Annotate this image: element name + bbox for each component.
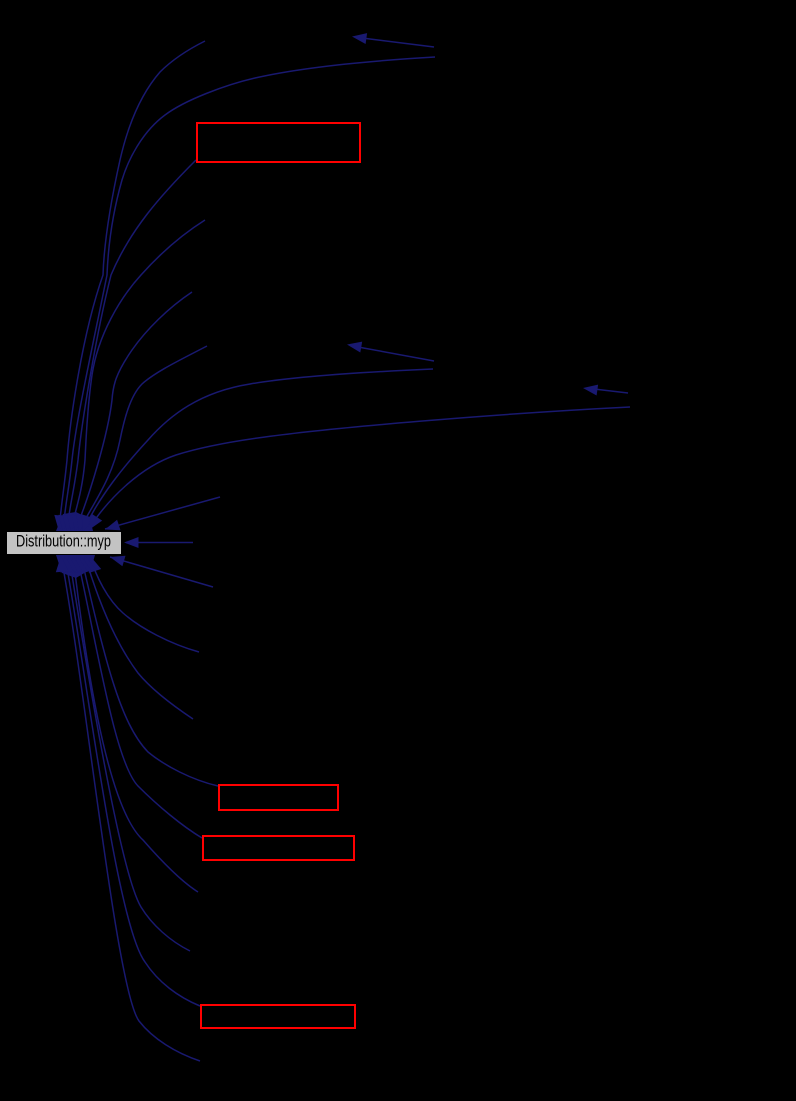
arrow cluster blob top bbox=[56, 512, 93, 531]
arrowhead L4 bbox=[78, 556, 91, 573]
wire U8 bbox=[105, 497, 220, 529]
svg-text:Distribution::myp: Distribution::myp bbox=[16, 533, 111, 551]
wire L1 bbox=[110, 557, 213, 587]
arrowhead U7 bbox=[88, 514, 102, 531]
node Distribution::myp central bbox=[7, 532, 122, 555]
arrowhead U5 bbox=[72, 515, 85, 532]
arrowhead U8 bbox=[105, 520, 121, 531]
wire L3 bbox=[85, 556, 193, 719]
wire U3 bbox=[67, 160, 196, 531]
wire U1 bbox=[59, 41, 205, 531]
node red box 3 bbox=[203, 836, 354, 860]
wire L9 bbox=[61, 556, 200, 1061]
wire L6 bbox=[73, 556, 198, 892]
arrowhead L3 bbox=[83, 556, 96, 573]
node red box 2 bbox=[219, 785, 338, 810]
arrowhead H1 bbox=[124, 537, 139, 548]
arrowhead L7 bbox=[65, 556, 78, 573]
wire U2 bbox=[63, 57, 435, 531]
arrowhead A7 bbox=[583, 385, 598, 396]
arrowhead L2 bbox=[89, 556, 101, 573]
arrowhead A6 bbox=[347, 342, 362, 353]
arrowhead U2 bbox=[58, 515, 71, 532]
arrow cluster blob bottom bbox=[56, 555, 95, 578]
wire U5 bbox=[75, 292, 192, 531]
node red box 4 bbox=[201, 1005, 355, 1028]
arrowhead U3 bbox=[62, 515, 75, 532]
wire U6 bbox=[83, 369, 433, 531]
arrowhead U1 bbox=[54, 515, 67, 532]
arrowhead L8 bbox=[61, 556, 74, 573]
arrowhead A2 bbox=[352, 33, 367, 44]
arrowhead L9 bbox=[56, 556, 69, 573]
wire A7 bbox=[594, 389, 628, 393]
wire U4 bbox=[71, 220, 205, 531]
wire U7 bbox=[88, 407, 630, 530]
wire L5 bbox=[77, 556, 202, 838]
arrowhead U4 bbox=[67, 515, 80, 532]
wire L7 bbox=[69, 556, 190, 951]
arrowhead U6 bbox=[82, 514, 94, 531]
node red box 1 bbox=[197, 123, 360, 162]
wire H1 bbox=[126, 542, 193, 544]
arrowhead U5b bbox=[76, 515, 89, 532]
wire A2 bbox=[362, 38, 434, 47]
wire L8 bbox=[65, 556, 200, 1006]
wire A6 bbox=[358, 347, 434, 361]
arrowhead L6 bbox=[69, 556, 82, 573]
wire L2 bbox=[90, 556, 199, 652]
arrowhead L5 bbox=[74, 556, 87, 573]
arrowhead L1 bbox=[110, 556, 126, 567]
wire L4 bbox=[81, 556, 218, 786]
wire U5b bbox=[79, 346, 207, 531]
